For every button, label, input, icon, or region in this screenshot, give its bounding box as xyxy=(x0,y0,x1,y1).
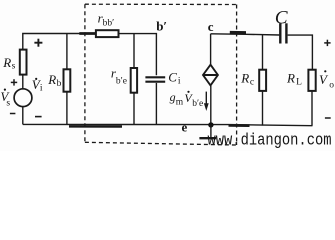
resistor R_s xyxy=(20,50,27,75)
svg-text:b′: b′ xyxy=(156,19,167,34)
plus sign of V_o xyxy=(324,40,330,46)
svg-text:i: i xyxy=(40,84,43,94)
resistor r_b'e xyxy=(131,68,137,93)
wire: source to bottom rail xyxy=(22,107,24,125)
watermark www.diangon.com xyxy=(208,132,332,151)
svg-text:R: R xyxy=(240,70,249,85)
chord across diamond xyxy=(203,74,218,76)
svg-text:m: m xyxy=(176,98,184,108)
wire: top rail from source corner to r_bb' xyxy=(23,34,80,50)
svg-text:s: s xyxy=(6,98,10,108)
resistor R_b xyxy=(64,69,71,91)
wire: thick lead into r_bb' xyxy=(79,32,96,35)
wire: r_b'e bottom lead xyxy=(133,93,135,125)
label R_L xyxy=(286,70,302,87)
svg-text:V: V xyxy=(319,72,329,87)
svg-text:R: R xyxy=(47,72,56,87)
wire: diamond bottom to node e xyxy=(210,85,212,124)
wire: capacitor C to R_L corner xyxy=(288,35,313,70)
dashed box of transistor model: left edge xyxy=(84,4,86,142)
label C_i xyxy=(168,70,181,87)
minus sign of V_o xyxy=(325,117,331,119)
wire: tap from b' rail down to r_b'e xyxy=(133,34,135,69)
svg-text:R: R xyxy=(2,55,11,70)
dashed box: bottom edge xyxy=(85,142,237,145)
wire: C_i bottom lead xyxy=(155,83,157,125)
wire: r_bb' to b' corner then down to C_i xyxy=(119,34,157,76)
label r_bb' xyxy=(98,11,115,29)
dashed box: right edge xyxy=(236,5,238,146)
capacitor C right plate xyxy=(285,23,287,43)
wire: R_c tap lead xyxy=(262,35,264,70)
capacitor C_i top plate xyxy=(145,76,165,78)
wire: thick segment on bottom rail right of e xyxy=(229,124,250,127)
node label e xyxy=(182,120,188,135)
current direction arrow beside wire xyxy=(205,92,207,105)
ground stub below e xyxy=(210,125,212,138)
svg-text:C: C xyxy=(168,70,177,85)
wire: R_c bottom lead xyxy=(262,91,264,126)
controlled current source diamond g_m V_b'e xyxy=(203,65,218,86)
svg-text:o: o xyxy=(329,81,334,91)
dashed box: top edge xyxy=(85,3,237,5)
ground bar xyxy=(199,137,216,139)
wire: R_b bottom lead xyxy=(66,92,68,125)
svg-text:g: g xyxy=(170,90,176,104)
label g_m V_b'e xyxy=(170,90,204,109)
label C xyxy=(275,7,288,28)
plus sign of V_i xyxy=(34,39,42,47)
node label b' xyxy=(156,19,167,34)
svg-text:c: c xyxy=(208,19,214,34)
capacitor C left plate xyxy=(279,23,281,43)
resistor r_bb' (horizontal) xyxy=(96,30,119,37)
svg-text:b′e: b′e xyxy=(192,99,203,109)
svg-text:b: b xyxy=(57,79,62,89)
minus sign of V_s xyxy=(10,113,16,115)
label V_s with dot xyxy=(0,89,10,109)
label R_c xyxy=(240,70,254,87)
node label c xyxy=(208,19,214,34)
svg-text:L: L xyxy=(296,78,302,88)
svg-text:e: e xyxy=(182,120,188,135)
minus sign of V_i xyxy=(35,116,42,118)
wire: c corner down to diamond xyxy=(210,34,212,65)
capacitor C_i bottom plate xyxy=(145,81,165,83)
wire: thick segment on c rail xyxy=(230,31,246,34)
label R_s xyxy=(2,55,15,72)
svg-text:www.diangon.com: www.diangon.com xyxy=(208,132,332,151)
wire: thick doubled segment on bottom rail left xyxy=(69,125,122,128)
wire: R_b top lead xyxy=(66,34,68,70)
svg-text:s: s xyxy=(12,62,16,72)
resistor R_L xyxy=(308,70,315,91)
junction dot at node e xyxy=(208,122,213,127)
svg-text:b′e: b′e xyxy=(116,76,127,86)
label V_o with dot xyxy=(319,70,334,90)
wire: R_s to source xyxy=(22,75,24,89)
label V_i with dot xyxy=(32,77,43,94)
plus sign of V_s xyxy=(11,79,17,85)
arrowhead xyxy=(204,103,209,111)
label R_b xyxy=(47,72,61,89)
bottom rail xyxy=(23,124,313,125)
label r_b'e xyxy=(111,66,127,87)
wire: R_L bottom lead xyxy=(311,91,313,126)
svg-text:i: i xyxy=(178,76,181,86)
svg-text:c: c xyxy=(250,78,254,88)
wire: top rail from c to capacitor C xyxy=(211,34,280,35)
resistor R_c xyxy=(259,70,266,91)
svg-text:R: R xyxy=(286,70,295,85)
voltage source V_s circle xyxy=(14,89,32,107)
svg-text:C: C xyxy=(275,7,288,28)
svg-text:bb′: bb′ xyxy=(103,19,115,29)
